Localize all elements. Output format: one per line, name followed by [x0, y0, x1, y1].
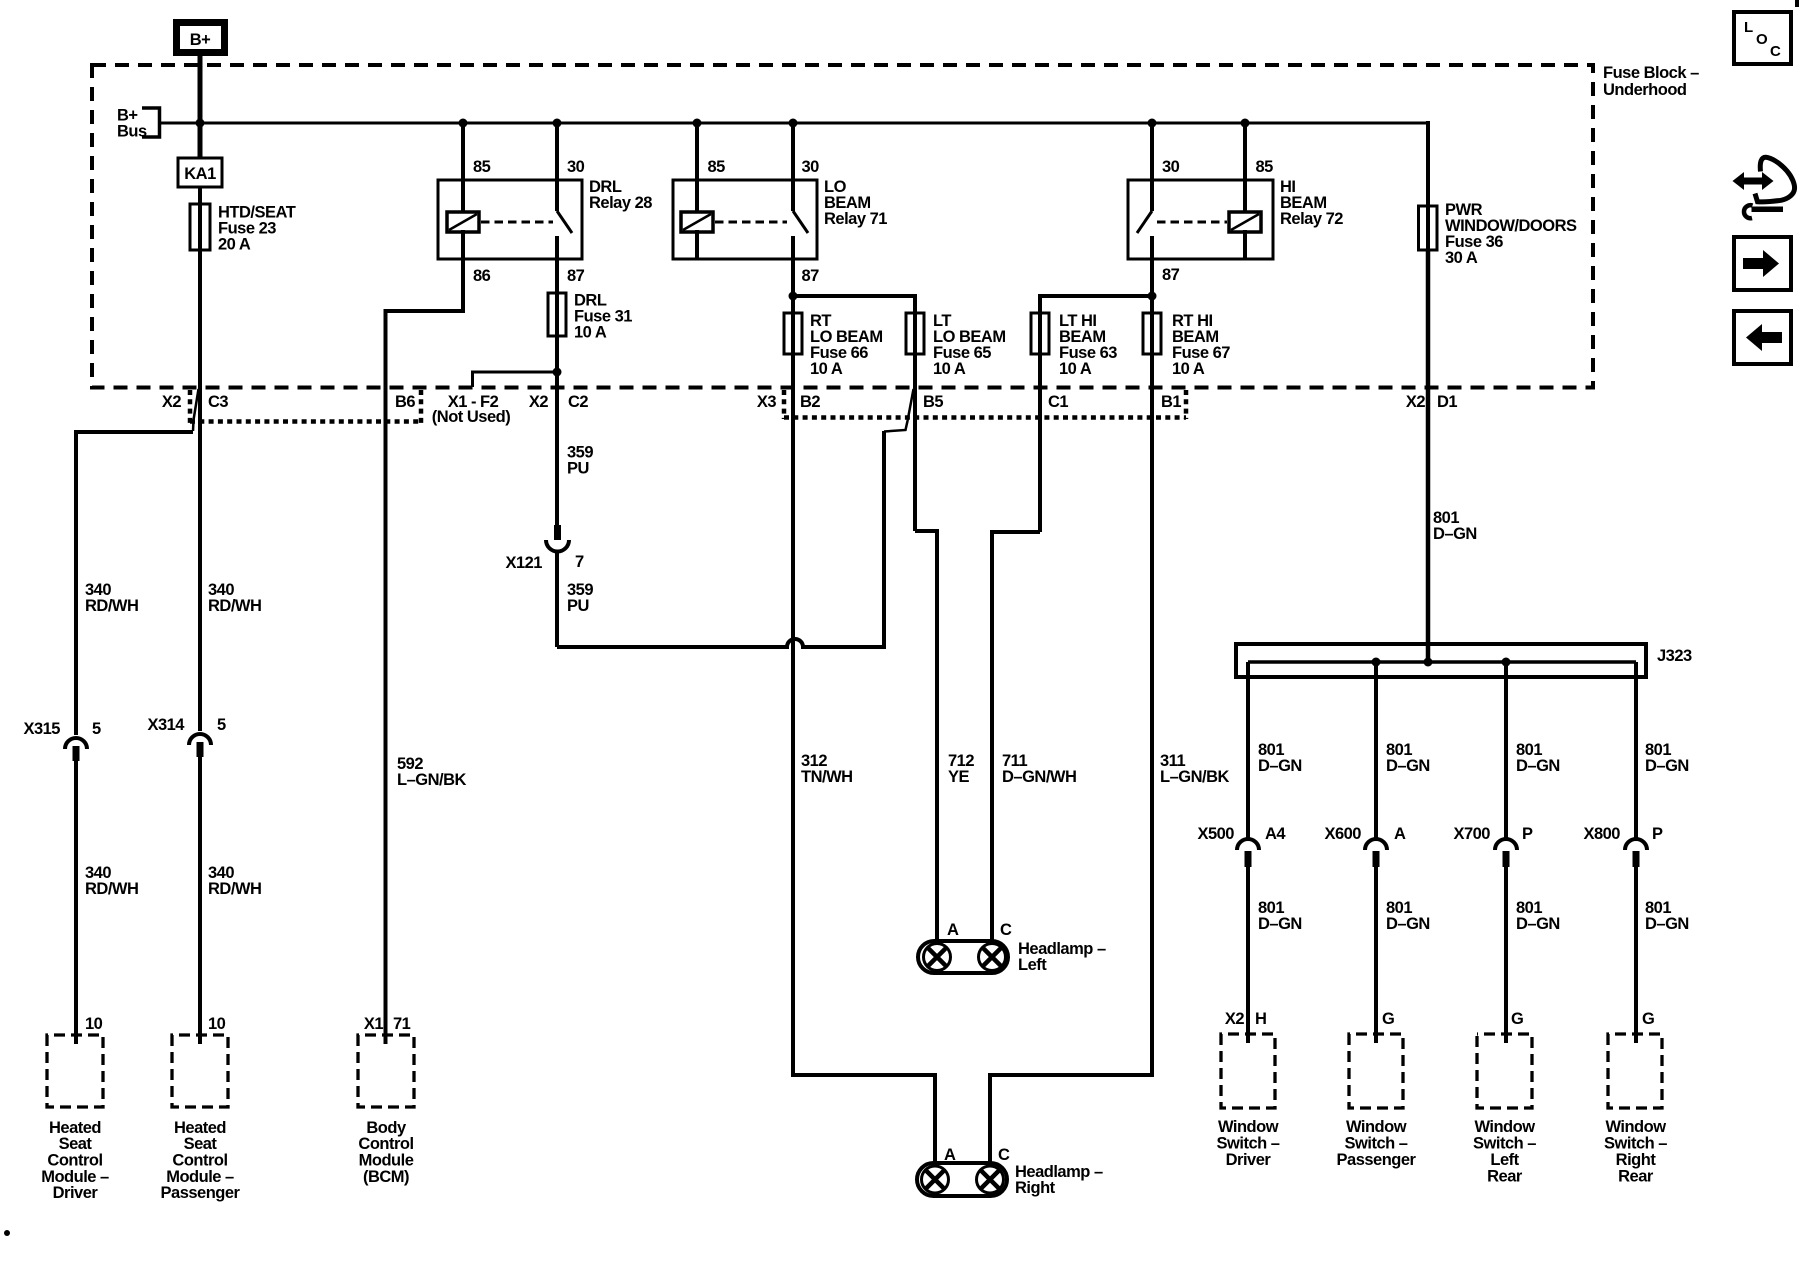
- connector X121: [554, 525, 561, 540]
- wire 711 D-GN/WH to headlamp left C: [992, 532, 1040, 942]
- wire B+ down to bus: [198, 56, 203, 158]
- svg-text:10 A: 10 A: [933, 360, 966, 378]
- svg-text:(Not Used): (Not Used): [432, 408, 510, 426]
- wire C3 down to X314: [198, 386, 202, 731]
- svg-text:30: 30: [802, 158, 820, 176]
- coil stub LO: [695, 230, 699, 258]
- right arrow box icon: [1734, 237, 1791, 290]
- node bus-30 HI: [1148, 119, 1157, 128]
- relay HI BEAM Relay 72: [1128, 180, 1273, 259]
- fuse RT LO BEAM Fuse 66: [784, 313, 802, 354]
- svg-text:BodyControlModule(BCM): BodyControlModule(BCM): [358, 1119, 413, 1186]
- Window Switch Right Rear box: [1608, 1034, 1662, 1108]
- svg-text:P: P: [1522, 825, 1533, 843]
- stray mark top right: [1795, 0, 1799, 7]
- relay box KA1: [178, 158, 222, 187]
- wire pin 87 LO down: [791, 236, 795, 387]
- svg-text:10 A: 10 A: [810, 360, 843, 378]
- wire J323 to X500: [1246, 662, 1250, 839]
- svg-text:Fuse Block –: Fuse Block –: [1603, 64, 1699, 82]
- coil LO relay: [681, 212, 713, 232]
- svg-text:Relay 28: Relay 28: [589, 194, 652, 212]
- node bus-30 LO: [789, 119, 798, 128]
- svg-text:30: 30: [567, 158, 585, 176]
- svg-text:D1: D1: [1437, 393, 1457, 411]
- wire X314 to passenger module: [198, 757, 202, 1044]
- svg-text:X315: X315: [23, 720, 60, 738]
- wire bus to pin 30 LO: [791, 121, 795, 211]
- B+ terminal box: [177, 23, 225, 53]
- connector X500: [1237, 839, 1259, 850]
- wire KA1 to fuse 23: [198, 187, 202, 386]
- node J323 X700 tap: [1502, 658, 1511, 667]
- svg-text:X1: X1: [364, 1015, 384, 1033]
- svg-text:10: 10: [85, 1015, 103, 1033]
- svg-text:X500: X500: [1197, 825, 1234, 843]
- svg-text:B+: B+: [190, 31, 211, 49]
- svg-text:RD/WH: RD/WH: [85, 597, 138, 615]
- Body Control Module box: [358, 1035, 414, 1107]
- svg-text:X314: X314: [147, 716, 185, 734]
- svg-text:D–GN: D–GN: [1645, 915, 1689, 933]
- wire bus corner to fuse 36: [1426, 121, 1430, 252]
- svg-text:X2: X2: [529, 393, 549, 411]
- wire thin tap at B5: [884, 389, 914, 432]
- svg-text:A4: A4: [1265, 825, 1286, 843]
- svg-text:87: 87: [802, 267, 820, 285]
- wire X700 to window switch left rear: [1504, 867, 1508, 1043]
- svg-text:C: C: [998, 1146, 1010, 1164]
- svg-text:X700: X700: [1453, 825, 1490, 843]
- connector strip left: [188, 390, 193, 424]
- svg-text:X2: X2: [1406, 393, 1426, 411]
- svg-text:87: 87: [1162, 266, 1180, 284]
- connector X700: [1495, 839, 1517, 850]
- svg-text:85: 85: [1256, 158, 1274, 176]
- curved arrow icon: [1741, 178, 1766, 185]
- svg-text:G: G: [1642, 1010, 1654, 1028]
- svg-text:X121: X121: [505, 554, 542, 572]
- wire X315 to driver module: [74, 761, 78, 1044]
- node 87 HI branch: [1148, 292, 1157, 301]
- svg-text:5: 5: [92, 720, 101, 738]
- junction block J323: [1236, 644, 1646, 677]
- svg-text:Relay 72: Relay 72: [1280, 210, 1343, 228]
- svg-text:Relay 71: Relay 71: [824, 210, 887, 228]
- svg-text:D–GN/WH: D–GN/WH: [1002, 768, 1076, 786]
- svg-text:O: O: [1756, 31, 1768, 48]
- wire branch to fuse 63: [1040, 296, 1152, 532]
- headlamp Right: [917, 1163, 1007, 1196]
- svg-text:86: 86: [473, 267, 491, 285]
- svg-text:C2: C2: [568, 393, 588, 411]
- fuse HTD/SEAT Fuse 23: [190, 204, 210, 250]
- svg-text:B2: B2: [800, 393, 820, 411]
- node bus-85 HI: [1241, 119, 1250, 128]
- svg-text:X2: X2: [1225, 1010, 1245, 1028]
- svg-text:D–GN: D–GN: [1645, 757, 1689, 775]
- stray mark bottom left: [4, 1230, 10, 1236]
- connector X600: [1365, 839, 1387, 850]
- headlamp Left: [918, 941, 1008, 973]
- svg-text:10 A: 10 A: [1059, 360, 1092, 378]
- fuse LT HI BEAM Fuse 63: [1031, 313, 1049, 354]
- svg-text:G: G: [1511, 1010, 1523, 1028]
- wire 712 YE to headlamp left A: [915, 531, 937, 942]
- Window Switch Passenger box: [1349, 1034, 1403, 1108]
- wire 311 L-GN/BK to headlamp right C: [990, 387, 1152, 1164]
- svg-text:KA1: KA1: [184, 165, 216, 183]
- wire branch to fuse 65: [793, 296, 915, 531]
- wire J323 to X700: [1504, 662, 1508, 839]
- svg-text:PU: PU: [567, 460, 589, 478]
- svg-text:RD/WH: RD/WH: [208, 880, 261, 898]
- svg-text:H: H: [1255, 1010, 1266, 1028]
- svg-text:C1: C1: [1048, 393, 1068, 411]
- wire X500 to window switch driver: [1246, 867, 1250, 1043]
- switch blade LO relay: [793, 211, 808, 233]
- svg-text:20 A: 20 A: [218, 236, 251, 254]
- wire bus to pin 30 HI: [1150, 121, 1154, 211]
- node bus-30 DRL: [553, 119, 562, 128]
- svg-text:TN/WH: TN/WH: [801, 768, 853, 786]
- fuse PWR WINDOW/DOORS Fuse 36: [1419, 206, 1438, 250]
- wire X600 to window switch passenger: [1374, 867, 1378, 1043]
- svg-text:A: A: [944, 1146, 956, 1164]
- Window Switch Left Rear box: [1477, 1034, 1532, 1108]
- node J323 X600 tap: [1372, 658, 1381, 667]
- svg-text:D–GN: D–GN: [1258, 757, 1302, 775]
- svg-text:X600: X600: [1324, 825, 1361, 843]
- svg-text:5: 5: [217, 716, 226, 734]
- wire J323 to X600: [1374, 662, 1378, 839]
- coil stub HI: [1243, 230, 1247, 258]
- svg-text:X3: X3: [757, 393, 777, 411]
- svg-text:Left: Left: [1018, 956, 1047, 974]
- svg-text:D–GN: D–GN: [1433, 525, 1477, 543]
- node 87 LO branch: [789, 292, 798, 301]
- svg-text:85: 85: [708, 158, 726, 176]
- connector strip right: [782, 390, 787, 419]
- wire bus to pin 30 DRL: [555, 121, 559, 211]
- node bus-85 DRL: [459, 119, 468, 128]
- Fuse Block - Underhood dashed box: [92, 65, 1593, 388]
- svg-text:A: A: [947, 921, 959, 939]
- relay LO BEAM Relay 71: [673, 180, 817, 259]
- wire pin 87 DRL down: [555, 236, 559, 525]
- svg-text:D–GN: D–GN: [1386, 915, 1430, 933]
- svg-text:85: 85: [473, 158, 491, 176]
- wire pin 86 DRL to BCM: [386, 230, 464, 1044]
- wire pin 87 HI down: [1150, 236, 1154, 387]
- svg-text:B1: B1: [1161, 393, 1181, 411]
- svg-text:D–GN: D–GN: [1516, 757, 1560, 775]
- switch blade DRL relay: [557, 211, 572, 233]
- svg-text:RD/WH: RD/WH: [85, 880, 138, 898]
- Window Switch Driver box: [1221, 1034, 1275, 1108]
- svg-text:YE: YE: [948, 768, 970, 786]
- svg-text:RD/WH: RD/WH: [208, 597, 261, 615]
- svg-text:G: G: [1382, 1010, 1394, 1028]
- svg-text:L–GN/BK: L–GN/BK: [1160, 768, 1230, 786]
- svg-text:Underhood: Underhood: [1603, 81, 1687, 99]
- coil DRL relay: [447, 212, 479, 232]
- Heated Seat Control Module Passenger box: [172, 1035, 228, 1107]
- wire X800 to window switch right rear: [1634, 867, 1638, 1043]
- svg-text:J323: J323: [1657, 647, 1692, 665]
- wire bus to pin 85 DRL: [461, 121, 465, 211]
- svg-text:B6: B6: [395, 393, 415, 411]
- Heated Seat Control Module Driver box: [47, 1035, 103, 1107]
- wire 801 D-GN fuse36 to J323: [1426, 250, 1431, 662]
- svg-text:C3: C3: [208, 393, 228, 411]
- svg-text:D–GN: D–GN: [1258, 915, 1302, 933]
- connector X800: [1625, 839, 1647, 850]
- svg-text:D–GN: D–GN: [1516, 915, 1560, 933]
- svg-text:B5: B5: [923, 393, 943, 411]
- svg-text:87: 87: [567, 267, 585, 285]
- svg-text:A: A: [1394, 825, 1406, 843]
- svg-text:C: C: [1770, 43, 1781, 60]
- B+ Bus bracket: [142, 108, 160, 137]
- switch blade HI relay: [1137, 211, 1152, 233]
- wire branch to X315: [76, 432, 193, 735]
- svg-text:WindowSwitch –Passenger: WindowSwitch –Passenger: [1337, 1118, 1417, 1169]
- svg-text:P: P: [1652, 825, 1663, 843]
- svg-text:30 A: 30 A: [1445, 249, 1478, 267]
- svg-text:X800: X800: [1583, 825, 1620, 843]
- relay DRL Relay 28: [438, 180, 582, 259]
- wire 359 PU run with hop over 312 wire: [557, 431, 884, 647]
- left arrow box icon: [1734, 311, 1791, 364]
- wire bus to pin 85 LO: [695, 121, 699, 211]
- svg-text:C: C: [1000, 921, 1012, 939]
- LOC box icon: [1734, 12, 1791, 64]
- wire J323 to X800: [1634, 662, 1638, 839]
- svg-text:L–GN/BK: L–GN/BK: [397, 771, 467, 789]
- node bus-85 LO: [693, 119, 702, 128]
- fuse DRL Fuse 31: [548, 293, 566, 336]
- svg-text:X2: X2: [162, 393, 182, 411]
- svg-text:10: 10: [208, 1015, 226, 1033]
- svg-text:L: L: [1744, 19, 1753, 36]
- B+ bus wire: [160, 122, 1429, 125]
- svg-text:10 A: 10 A: [1172, 360, 1205, 378]
- svg-text:Right: Right: [1015, 1179, 1056, 1197]
- wire bus to pin 85 HI: [1243, 121, 1247, 211]
- wire C3 jog to driver branch: [193, 389, 199, 431]
- svg-text:PU: PU: [567, 597, 589, 615]
- svg-text:71: 71: [393, 1015, 411, 1033]
- node J323 feed: [1424, 658, 1433, 667]
- connector X315: [65, 738, 87, 749]
- coil HI relay: [1229, 212, 1261, 232]
- node fuse31 out: [553, 368, 562, 377]
- svg-text:WindowSwitch –Driver: WindowSwitch –Driver: [1217, 1118, 1280, 1169]
- svg-text:D–GN: D–GN: [1386, 757, 1430, 775]
- fuse RT HI BEAM Fuse 67: [1143, 313, 1161, 354]
- svg-text:7: 7: [575, 553, 584, 571]
- fuse LT LO BEAM Fuse 65: [906, 313, 924, 354]
- connector X314: [189, 734, 211, 745]
- wire 312 TN/WH to headlamp right A: [793, 387, 935, 1164]
- svg-text:10 A: 10 A: [574, 324, 607, 342]
- wire stub X1-F2 not used: [473, 372, 558, 387]
- svg-text:30: 30: [1162, 158, 1180, 176]
- node bus-B+: [196, 119, 205, 128]
